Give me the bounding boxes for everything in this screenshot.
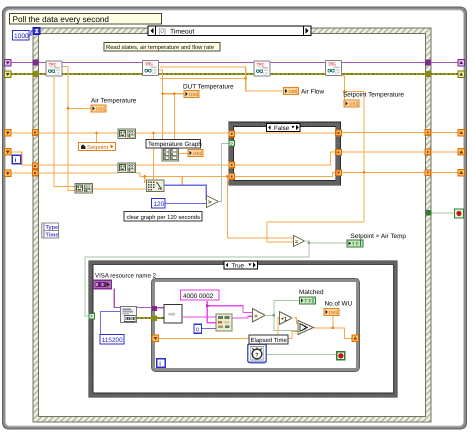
- svg-text:Temperature Graph: Temperature Graph: [148, 141, 202, 148]
- svg-text:[0]: [0]: [159, 28, 166, 35]
- svg-text:?: ?: [90, 314, 93, 319]
- svg-text:Setpoint Temperature: Setpoint Temperature: [343, 92, 404, 99]
- svg-text:+1: +1: [281, 317, 287, 323]
- svg-text:Read states, air temperature a: Read states, air temperature and flow ra…: [106, 44, 215, 51]
- svg-text:=: =: [254, 314, 258, 320]
- svg-text:?: ?: [230, 141, 233, 146]
- svg-text:Poll the data every second: Poll the data every second: [13, 15, 110, 24]
- svg-text:>: >: [208, 200, 212, 206]
- svg-text:True: True: [232, 263, 245, 270]
- svg-text:Timeout: Timeout: [170, 28, 194, 35]
- svg-text:4000 0002: 4000 0002: [183, 293, 214, 300]
- svg-text:MIX: MIX: [169, 313, 176, 317]
- svg-text:clear graph per 120 seconds: clear graph per 120 seconds: [127, 214, 201, 221]
- svg-text:Elapsed Time: Elapsed Time: [251, 337, 288, 344]
- svg-text:DUT Temperature: DUT Temperature: [183, 84, 234, 91]
- svg-text:Time: Time: [46, 232, 59, 239]
- svg-text:Air Temperature: Air Temperature: [91, 98, 137, 105]
- svg-text:Matched: Matched: [299, 289, 324, 296]
- svg-text:115200: 115200: [102, 337, 123, 344]
- svg-text:120: 120: [154, 201, 165, 208]
- svg-text:No.of WU: No.of WU: [325, 301, 353, 308]
- svg-text:1000: 1000: [14, 33, 29, 40]
- svg-text:Air Flow: Air Flow: [301, 89, 324, 96]
- svg-text:Setpoint: Setpoint: [87, 144, 109, 151]
- svg-text:?: ?: [255, 353, 258, 359]
- svg-text:False: False: [274, 125, 290, 132]
- svg-text:VISA resource name 2: VISA resource name 2: [95, 273, 157, 280]
- svg-text:Setpoint = Air Temp: Setpoint = Air Temp: [351, 233, 407, 240]
- svg-text:0: 0: [196, 327, 199, 333]
